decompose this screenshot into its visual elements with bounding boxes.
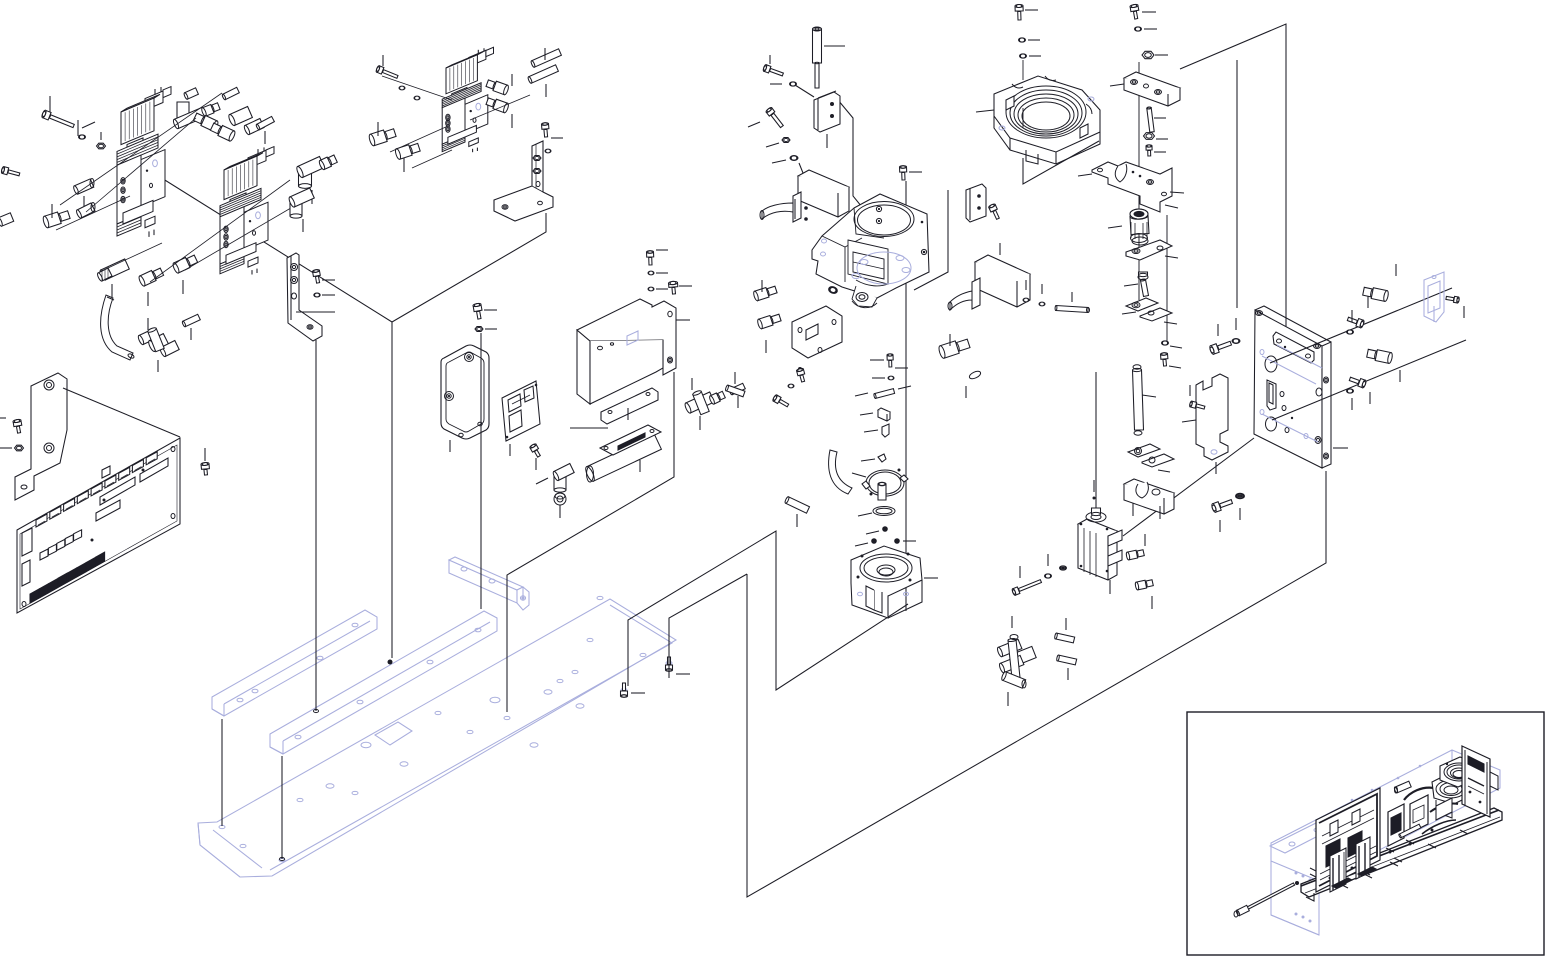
wire leader big zigzag from J3 to mounting panel corner — [747, 471, 1326, 897]
wire leader air cylinder to panel corner — [1123, 438, 1254, 536]
screw for V3 — [376, 55, 398, 78]
washer for L-bracket A — [314, 293, 335, 297]
angled screw below plate — [772, 394, 789, 406]
spacer rail 3 (ghost) — [449, 557, 529, 610]
wire leader from bracket of valve manifold B down to node J1 — [392, 213, 546, 322]
solenoid S2 — [948, 243, 1030, 310]
washer below screw — [770, 82, 797, 86]
fitting pair left of V3 — [368, 122, 420, 172]
clamp chain — [864, 424, 889, 437]
small tube E — [725, 372, 745, 397]
stud right column — [1147, 107, 1166, 132]
leader tick bracket A — [296, 311, 335, 313]
elbow push fitting right of V2 — [296, 155, 338, 204]
wire leader from valve manifold A to node J1 — [144, 167, 392, 322]
screw fastener at plate hole B — [621, 683, 628, 697]
base plate holes (ghost) — [219, 596, 672, 861]
washer left of panel — [1232, 318, 1240, 343]
washer B for V3 — [414, 96, 420, 100]
washer below plate — [788, 384, 794, 388]
PCB circuit board — [17, 438, 180, 613]
flat screw above cover — [668, 281, 692, 294]
screw below plate — [796, 368, 804, 382]
link plates — [1128, 444, 1174, 472]
hex nut for bracket plate — [475, 327, 497, 332]
base plate (ghost) — [198, 599, 676, 877]
axis line c1-b — [86, 118, 196, 212]
inset right plate — [1462, 746, 1498, 817]
leader from grommet — [204, 448, 206, 461]
elbow fitting below — [536, 464, 574, 519]
sensor PCB — [502, 381, 540, 456]
screw for bracket plate — [473, 303, 497, 319]
socket screw right B — [1349, 377, 1370, 404]
inset ghost box (blue) — [1271, 750, 1500, 935]
washer left — [772, 156, 798, 163]
tube hose center — [829, 450, 852, 494]
cover bracket — [577, 299, 690, 404]
edge screw far left — [1, 166, 20, 176]
sensor clip right — [966, 184, 986, 222]
long pin — [813, 27, 846, 88]
dot right col — [1093, 480, 1096, 500]
axis line c1-c — [56, 196, 130, 230]
tube F — [1054, 618, 1074, 643]
washer small right — [1162, 341, 1183, 348]
wire leader rail1 to plate hole — [221, 719, 223, 826]
sensor clip — [814, 91, 840, 148]
washer above cover A — [648, 271, 668, 275]
screw for sensor PCB — [529, 443, 540, 470]
washer above cover B — [648, 287, 668, 291]
tee fitting right — [684, 378, 725, 430]
main block — [812, 194, 929, 308]
long tube right — [1132, 365, 1156, 435]
dot c — [894, 538, 916, 544]
tube pair top right — [527, 48, 561, 97]
inset view border — [1187, 712, 1544, 955]
washer above ring nut A — [1019, 38, 1041, 42]
inset valve stack A — [1330, 848, 1352, 892]
small bolt right column — [1146, 145, 1166, 156]
cross fitting assembly — [137, 318, 179, 372]
wire leader vertical from block screw to hex pot — [905, 181, 907, 611]
long screw for cylinder — [1012, 566, 1042, 596]
L-bracket B — [494, 141, 553, 221]
hook chain — [861, 454, 886, 462]
bolt small right — [1160, 352, 1181, 368]
screw above cover — [646, 250, 668, 265]
roll pin — [855, 386, 911, 399]
spacer bar — [570, 388, 658, 428]
knurled fitting left — [73, 179, 94, 211]
wire leader from screw C to junction J3 — [669, 574, 747, 678]
tube G — [1056, 655, 1076, 680]
fitting right of panel A — [1363, 264, 1396, 302]
knurled fitting lower — [97, 259, 130, 298]
pin right of S2 — [1055, 292, 1090, 313]
clamp plates — [1122, 298, 1177, 324]
flat screw for bent bracket — [1189, 385, 1205, 409]
axis line c2-c — [412, 150, 452, 168]
spacer rail 2 (ghost) — [270, 611, 497, 754]
screw for PCB bracket — [0, 418, 22, 433]
mounting plate small — [792, 306, 842, 371]
bent bracket left of panel — [1182, 374, 1228, 474]
small screw far right — [1446, 296, 1464, 318]
fitting right of panel B — [1367, 349, 1400, 382]
wire leader node J1 down to base plate hole — [388, 322, 393, 665]
washer below panel — [1236, 493, 1245, 520]
wire leader from top bar to panel upper region — [1180, 24, 1286, 368]
wire leader from screw B up to hub and down to hex pot — [628, 531, 908, 690]
hex nut 2 right column — [1144, 133, 1169, 140]
push fitting pair right of V3 — [486, 74, 512, 128]
edge fitting far left — [0, 213, 14, 227]
washer right of S2 A — [1023, 280, 1029, 302]
screw above ring nut — [1015, 4, 1038, 20]
seal plate — [1126, 240, 1178, 260]
tee fitting above V1 — [172, 88, 220, 130]
push fitting far left — [42, 204, 70, 228]
hose elbow — [101, 295, 135, 360]
leader from PCB to bracket — [63, 388, 180, 437]
inset ghost plate (blue) — [1270, 765, 1421, 853]
inset mid components — [1386, 781, 1434, 852]
holder block — [1124, 479, 1174, 519]
washer cyl B — [1060, 566, 1067, 570]
top bar block — [1110, 72, 1180, 106]
inset small details — [1310, 798, 1452, 888]
washer cyl A — [1045, 554, 1052, 578]
hex nut for PCB bracket — [0, 445, 24, 451]
wire leader from cover flange to base plate hole — [507, 372, 674, 712]
L-bracket A — [287, 253, 322, 341]
push fitting below block A — [753, 280, 777, 301]
screw top right column — [1130, 4, 1156, 19]
screw top left — [763, 55, 784, 76]
washer for V1 screw — [79, 122, 96, 139]
hex nut right column — [1142, 51, 1168, 58]
wire leader rail2 to plate hole — [280, 756, 285, 861]
washer right of V3 — [545, 149, 551, 153]
PCB corner screw grommet — [201, 462, 210, 475]
inset PCB assembly — [1316, 788, 1380, 892]
socket screw below panel — [1211, 500, 1233, 532]
solenoid valve V3 — [442, 47, 493, 152]
screw for clip right — [988, 203, 999, 219]
axis line c1-d — [108, 243, 162, 268]
push fitting pair lower — [138, 255, 198, 306]
fitting below block right — [938, 334, 982, 398]
cylinder fitting A — [1126, 534, 1145, 560]
dot a — [866, 526, 888, 534]
washer right B — [1347, 389, 1354, 410]
inset brew group — [1422, 774, 1470, 834]
axis line c1-f — [185, 205, 296, 270]
washer above ring nut B — [1020, 54, 1042, 80]
screw fastener at plate hole C — [666, 657, 691, 674]
gasket oval — [858, 507, 895, 517]
mounting panel — [1254, 306, 1348, 468]
axis line c2-d — [470, 95, 530, 120]
inset valve stack B — [1356, 837, 1376, 879]
push fitting below block B — [757, 314, 781, 353]
solenoid valve V2 — [220, 147, 274, 275]
small tube D — [729, 383, 746, 408]
PCB mounting bracket — [15, 373, 67, 500]
leader tick screw B — [631, 692, 645, 694]
check valve cylinder — [584, 425, 661, 482]
bracket plate — [441, 345, 489, 452]
inset ring nut — [1440, 757, 1478, 787]
axis line c2-a — [382, 76, 452, 100]
washer A for V3 — [399, 86, 405, 90]
screw on block top — [899, 166, 922, 180]
screw for L-bracket A — [312, 269, 335, 283]
elbow push fitting 2 right of V2 — [288, 188, 314, 232]
socket screw right A — [1347, 296, 1368, 328]
axis leader right column secondary — [1166, 215, 1168, 345]
wire leader vertical above air cylinder — [1095, 372, 1097, 516]
small tube C — [182, 314, 201, 340]
ring nut — [976, 76, 1100, 184]
small screw chain — [870, 354, 908, 368]
solenoid S1 — [760, 170, 849, 222]
axis line c1-a — [60, 93, 222, 205]
small tube A near V1 — [222, 87, 240, 100]
inset probe screw — [1234, 881, 1299, 917]
axis leader right column main — [1138, 62, 1140, 300]
washer right A — [1347, 310, 1354, 334]
wire leader from L-bracket A down to rail hole — [314, 340, 319, 713]
inset base rail — [1301, 808, 1502, 901]
solenoid valve V1 — [117, 87, 171, 237]
elbow fitting pair right of V1 — [193, 107, 264, 142]
plunger pin — [1124, 272, 1149, 297]
panel axis line A — [1270, 288, 1452, 363]
washer right column — [1135, 27, 1158, 31]
dot b — [855, 538, 877, 546]
knurled cylinder — [1108, 209, 1149, 245]
socket screw left of panel — [1209, 324, 1232, 355]
spacer rail 1 (ghost) — [212, 610, 377, 716]
wire leader around solenoid block — [795, 85, 866, 212]
square nut chain — [860, 408, 890, 421]
wire leader vertical right column — [1236, 60, 1238, 308]
knurled fitting left 2 — [76, 203, 95, 219]
wire leader from screw down to spacer rail — [480, 333, 482, 609]
axis line c1-e — [150, 180, 290, 282]
screw right of V3 — [541, 122, 563, 138]
hex nut for V1 — [97, 132, 106, 149]
cross fitting manifold — [996, 616, 1036, 706]
carrier bracket — [1078, 162, 1184, 212]
air cylinder — [1078, 508, 1122, 594]
hex nut left — [766, 138, 790, 148]
PCB connectors — [22, 452, 168, 603]
long screw for V1 — [41, 96, 78, 136]
washer right of S2 B — [1039, 284, 1045, 306]
axis line c2-b — [390, 126, 448, 152]
flange disc — [852, 469, 908, 501]
panel axis line B — [1272, 340, 1466, 420]
wire leader from ring nut area down right side of block — [914, 190, 948, 290]
cylinder fitting B — [1135, 580, 1154, 609]
small tube B right of V1 — [256, 116, 275, 144]
washer chain — [872, 376, 894, 380]
ghost bracket right (blue) — [1424, 272, 1444, 322]
hex pot — [851, 546, 938, 618]
tube segment white — [784, 496, 809, 527]
bolt left — [748, 107, 783, 128]
